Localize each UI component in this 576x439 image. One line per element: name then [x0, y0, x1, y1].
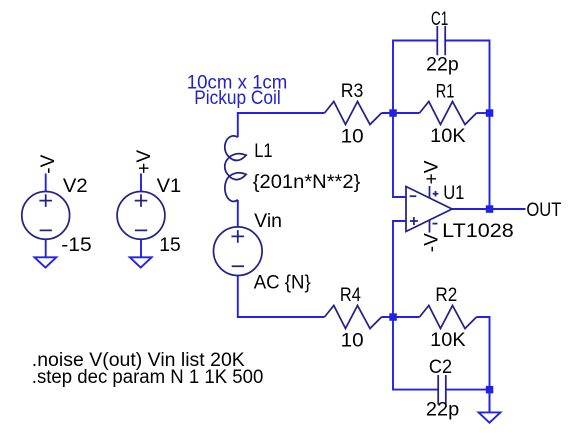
wire top row left	[238, 113, 325, 137]
wire C1 left column	[393, 41, 437, 198]
svg-text:U1: U1	[443, 183, 464, 204]
svg-text:.step dec param N 1 1K 500: .step dec param N 1 1K 500	[32, 367, 263, 388]
svg-text:10K: 10K	[430, 126, 466, 147]
wire R3 to R1 through node	[382, 112, 420, 114]
ground (V1)	[130, 257, 152, 267]
wire R1 right lead	[477, 112, 490, 114]
svg-text:-V: -V	[422, 233, 443, 252]
svg-text:+V: +V	[422, 160, 443, 184]
svg-text:R2: R2	[435, 285, 457, 306]
wire C2 right lead	[446, 390, 490, 413]
svg-text:R3: R3	[341, 81, 364, 102]
wire C2 left column	[393, 317, 438, 390]
wire inductor to Vin	[237, 200, 239, 227]
resistor R2	[420, 306, 477, 329]
junction node R4/R2	[389, 313, 397, 321]
resistor R4	[325, 306, 382, 329]
junction node R1 right	[486, 109, 494, 117]
wire R4 to R2 through node	[382, 316, 420, 318]
svg-text:-15: -15	[61, 235, 91, 256]
junction node C2	[486, 386, 494, 394]
resistor R3	[325, 102, 382, 125]
comment text pickup coil title	[187, 73, 287, 110]
svg-text:{201n*N**2}: {201n*N**2}	[253, 172, 360, 193]
svg-text:22p: 22p	[426, 54, 459, 75]
ground (V2)	[35, 257, 57, 267]
capacitor C1	[437, 26, 445, 55]
wire C1 right column	[445, 41, 489, 210]
svg-text:Pickup Coil: Pickup Coil	[194, 88, 281, 109]
svg-text:10K: 10K	[430, 330, 466, 351]
svg-text:15: 15	[159, 235, 180, 256]
resistor R1	[420, 102, 477, 125]
svg-text:R4: R4	[340, 285, 361, 306]
ground (C2 right)	[489, 390, 491, 413]
svg-text:22p: 22p	[426, 399, 459, 420]
svg-text:AC {N}: AC {N}	[254, 273, 311, 294]
voltage source V2	[22, 174, 70, 258]
wire R2 right lead down	[477, 317, 490, 390]
svg-text:Vin: Vin	[254, 211, 282, 232]
svg-text:LT1028: LT1028	[442, 221, 514, 242]
svg-text:C2: C2	[429, 357, 452, 378]
svg-text:10: 10	[341, 126, 364, 147]
svg-text:R1: R1	[436, 81, 455, 102]
op-amp U1	[406, 186, 452, 233]
capacitor C2	[438, 375, 446, 405]
svg-text:V1: V1	[157, 176, 182, 197]
inductor L1	[225, 136, 246, 202]
svg-text:-V: -V	[38, 154, 59, 173]
svg-text:L1: L1	[254, 141, 272, 162]
svg-text:V2: V2	[63, 176, 88, 197]
svg-text:10: 10	[341, 330, 364, 351]
junction node R3/R1	[389, 109, 397, 117]
voltage source Vin	[214, 227, 263, 276]
wire output to OUT	[452, 208, 526, 210]
wire opamp plus input down to R4 node	[393, 221, 406, 317]
svg-text:OUT: OUT	[526, 200, 561, 221]
svg-text:C1: C1	[431, 9, 448, 30]
svg-text:+V: +V	[134, 150, 155, 174]
wire bottom row left	[238, 276, 325, 318]
junction node OUT	[486, 205, 494, 213]
voltage source V1	[117, 174, 165, 258]
